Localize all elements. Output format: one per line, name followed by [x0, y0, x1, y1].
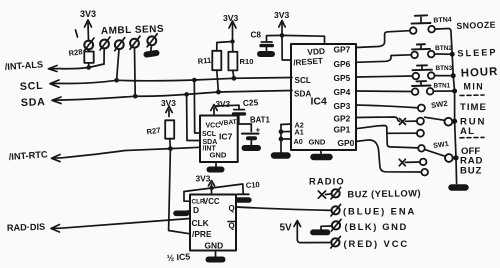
junction R11/SDA	[216, 90, 221, 95]
svg-text:AL: AL	[460, 126, 475, 137]
wire R11 to SDA	[217, 70, 219, 92]
connector pad GND (radio)	[331, 219, 341, 231]
svg-text:BTN3: BTN3	[436, 65, 453, 72]
wire IC7 GND	[215, 162, 217, 167]
svg-text:GND: GND	[210, 151, 227, 160]
power 5V	[280, 221, 301, 241]
svg-text:3V3: 3V3	[274, 10, 290, 20]
net /INT-ALS	[4, 59, 60, 72]
junction R10/SCL	[232, 76, 237, 81]
wire A2 stub	[281, 123, 291, 126]
wire Q to ENA pad	[236, 207, 332, 210]
svg-text:SCL: SCL	[20, 80, 44, 93]
wire GP2 to SW2 RUN	[356, 117, 400, 121]
svg-text:BAT1: BAT1	[250, 116, 270, 125]
wire /INT-ALS line	[60, 64, 104, 69]
junction SCL drop to IC7	[192, 78, 197, 83]
X mark (SW1 RAD)	[399, 159, 405, 166]
resistor R28	[68, 47, 94, 67]
junction 3V3 pullups	[230, 39, 234, 43]
svg-text:VCC: VCC	[206, 123, 221, 130]
svg-text:R10: R10	[240, 57, 254, 66]
X mark (GP2 wire)	[400, 119, 406, 125]
svg-text:3V3: 3V3	[196, 174, 211, 184]
svg-text:IC7: IC7	[219, 132, 233, 142]
wire pad3 to SCL line	[117, 49, 119, 80]
svg-text:(BLK) GND: (BLK) GND	[345, 221, 408, 232]
junction bus/SW2	[452, 119, 457, 124]
wire A1 stub	[281, 131, 291, 133]
svg-text:5V: 5V	[280, 223, 293, 234]
wire 3V3 to C8	[267, 35, 283, 41]
connector pad VCC (radio)	[331, 236, 341, 248]
wire A0 stub	[281, 138, 291, 140]
svg-text:RADIO: RADIO	[309, 176, 345, 187]
wire junction to /PRE	[169, 149, 190, 234]
svg-text:GND: GND	[309, 138, 326, 147]
pushbutton BTN4	[410, 15, 452, 34]
separator dashes	[460, 94, 484, 97]
wire BTN2 to bus	[435, 53, 453, 55]
resistor R27	[146, 120, 174, 148]
wire BTN4 to bus	[435, 28, 451, 31]
svg-text:RAD·DIS: RAD·DIS	[7, 222, 46, 233]
junction bus/BTN3	[451, 73, 456, 78]
wire X to BUZ pad	[326, 193, 332, 196]
wire BTN1 to bus	[433, 90, 454, 92]
IC IC4 (GPIO expander)	[291, 44, 356, 150]
wire 5V to VCC pad	[297, 240, 331, 243]
svg-text:GP4: GP4	[334, 87, 351, 97]
capacitor C8	[251, 31, 273, 52]
junction R27//INT-RTC	[168, 146, 173, 151]
wire R10 to SCL	[233, 70, 234, 78]
wire GP7 to BTN4	[356, 31, 410, 48]
wire RAD-DIS to CLK	[61, 219, 190, 229]
svg-text:BTN4: BTN4	[433, 17, 452, 25]
wire IC5 GND	[215, 251, 217, 257]
wire GP0 to SW1 BUZ	[356, 140, 421, 172]
ground (radio GND)	[313, 229, 328, 235]
svg-text:A1: A1	[295, 128, 304, 137]
svg-text:VDD: VDD	[307, 46, 325, 57]
svg-text:D: D	[193, 205, 199, 215]
connector pad BUZ (radio)	[331, 187, 341, 199]
wire 3V3 to R10	[232, 42, 234, 52]
svg-text:HOUR: HOUR	[461, 66, 499, 80]
svg-text:GP2: GP2	[334, 114, 351, 124]
svg-text:SCL: SCL	[295, 76, 311, 85]
svg-text:GP3: GP3	[334, 101, 351, 111]
pushbutton BTN3	[413, 65, 453, 79]
connector pad P4 AMBL	[130, 36, 140, 49]
svg-text:(RED) VCC: (RED) VCC	[344, 238, 410, 249]
svg-text:3V3: 3V3	[223, 13, 239, 23]
svg-text:3V3: 3V3	[80, 9, 96, 19]
wire GP6 to BTN2	[356, 55, 411, 63]
svg-text:3V3: 3V3	[216, 100, 231, 109]
ground (C10)	[238, 197, 249, 202]
connector pad P2 AMBL	[100, 37, 110, 50]
svg-text:GND: GND	[205, 241, 224, 251]
net RAD-DIS	[7, 222, 61, 233]
svg-text:BUZ: BUZ	[460, 166, 482, 177]
svg-text:GP1: GP1	[334, 125, 351, 135]
svg-text:SCL: SCL	[202, 131, 217, 138]
wire pad4 to SDA line	[134, 48, 137, 97]
wire IC4 GND	[320, 150, 322, 154]
svg-text:GP5: GP5	[334, 73, 351, 83]
wire 3V3 to C25	[216, 105, 239, 109]
IC IC7 (RTC)	[200, 116, 238, 163]
junction SCL/pad3	[114, 78, 119, 83]
wire SCL line	[60, 78, 292, 84]
svg-text:SLEEP: SLEEP	[457, 47, 497, 58]
svg-text:SDA: SDA	[294, 90, 311, 99]
wire 3V3 to /RESET	[282, 35, 291, 60]
power 3V3 (IC5)	[196, 174, 215, 189]
junction bus/BTN1	[452, 89, 457, 94]
connector pad P3 AMBL	[115, 38, 125, 51]
svg-text:Q: Q	[229, 204, 235, 213]
svg-text:GP7: GP7	[334, 45, 351, 55]
svg-text:/PRE: /PRE	[192, 229, 212, 239]
net /INT-RTC	[8, 149, 62, 162]
svg-text:GP0: GP0	[338, 138, 355, 148]
junction IC5 VCC	[209, 186, 213, 190]
power 3V3 (R27)	[161, 98, 176, 117]
svg-text:BUZ (YELLOW): BUZ (YELLOW)	[347, 188, 421, 199]
separator dashes	[460, 136, 484, 138]
svg-text:GP6: GP6	[334, 59, 351, 69]
ground (IC7)	[210, 167, 222, 173]
ground (bus)	[452, 184, 466, 191]
capacitor C10	[238, 180, 260, 194]
junction A1	[279, 129, 284, 134]
wire A-bus to ground	[280, 125, 282, 153]
svg-text:IC4: IC4	[311, 96, 328, 108]
wire SW2 common to bus	[452, 120, 454, 122]
svg-text:(BLUE) ENA: (BLUE) ENA	[343, 206, 416, 217]
ground (C8)	[260, 51, 272, 57]
svg-text:AMBL SENS: AMBL SENS	[101, 24, 165, 37]
svg-text:A0: A0	[294, 137, 303, 146]
wire 3V3 to C10	[212, 184, 244, 194]
switch SW2	[417, 99, 452, 137]
wire X to RAD contact	[405, 161, 420, 163]
wire SCL to IC7	[194, 80, 200, 133]
svg-text:½ IC5: ½ IC5	[166, 251, 190, 263]
power 3V3 (AMBL SENS)	[76, 9, 97, 41]
svg-text:TIME: TIME	[460, 102, 487, 113]
junction SDA drop to IC7	[184, 92, 189, 97]
pushbutton BTN2	[411, 44, 452, 58]
wire /INT-RTC line	[62, 147, 200, 158]
junction bus/SW1	[453, 155, 458, 160]
pushbutton BTN1	[412, 81, 451, 95]
ground (AMBL pad5)	[147, 45, 157, 54]
resistor R11	[197, 51, 221, 70]
power 3V3 (IC7)	[211, 100, 231, 116]
wire C25 to VBAT/BAT1	[239, 116, 252, 132]
wire SDA to IC7	[187, 94, 200, 140]
connector pad P5 AMBL	[147, 34, 157, 47]
battery BAT1	[242, 116, 270, 146]
IC IC5 (flip-flop)	[190, 195, 236, 251]
svg-text:BTN1: BTN1	[434, 83, 451, 90]
junction R28//INT-ALS	[86, 65, 91, 70]
svg-text:C25: C25	[243, 97, 259, 108]
connector pad P1 AMBL	[84, 38, 94, 51]
svg-text:C8: C8	[251, 31, 262, 40]
svg-text:BTN2: BTN2	[435, 45, 453, 52]
svg-text:R28: R28	[68, 47, 83, 58]
wire 3V3 to VCC pin	[211, 188, 213, 195]
junction SDA/pad4	[133, 94, 138, 99]
wire SDA line	[62, 91, 292, 101]
wire GP1 branch to SW2 AL	[387, 132, 417, 134]
power 3V3 (IC4)	[274, 10, 290, 34]
wire X to RUN contact	[406, 120, 417, 122]
power 3V3 (pull-ups R11 R10)	[223, 13, 239, 41]
net SCL	[20, 80, 60, 93]
svg-text:+: +	[256, 126, 261, 135]
wire D to ground	[184, 211, 191, 212]
wire 3V3 to CLR	[184, 188, 212, 201]
X mark (BUZ pad)	[318, 191, 325, 198]
ground (BAT1)	[245, 145, 259, 151]
wire GP5 to BTN3	[356, 76, 412, 77]
svg-text:R27: R27	[146, 126, 161, 137]
wire 3V3 to R11	[217, 42, 233, 51]
ground (A-bus)	[274, 152, 288, 159]
junction 3V3 IC4	[280, 33, 285, 38]
svg-text:C10: C10	[246, 180, 261, 190]
wire right bus	[451, 31, 457, 184]
switch SW1	[418, 139, 453, 176]
resistor R10	[228, 52, 253, 71]
junction A0	[279, 137, 284, 142]
svg-text:VCC: VCC	[203, 197, 220, 206]
wire pad2 to INT-ALS line	[103, 48, 105, 64]
wire BTN3 to bus	[435, 75, 454, 77]
ground (IC5)	[209, 257, 223, 263]
junction bus/BTN2	[450, 52, 455, 57]
wire GP4 to BTN1	[356, 90, 412, 93]
ground (D pin)	[176, 211, 187, 217]
capacitor C25	[234, 97, 259, 114]
svg-text:MIN: MIN	[464, 82, 485, 92]
wire GND pad to ground	[321, 226, 332, 230]
svg-text:Q: Q	[229, 222, 235, 231]
wire GP1 down	[356, 126, 418, 148]
svg-text:3V3: 3V3	[161, 98, 176, 108]
net SDA	[21, 96, 62, 109]
ground (IC4)	[314, 154, 330, 161]
connector pad ENA (radio)	[331, 204, 341, 216]
svg-text:SDA: SDA	[21, 96, 46, 109]
svg-text:CLK: CLK	[192, 218, 209, 228]
svg-text:SNOOZE: SNOOZE	[456, 20, 496, 31]
svg-text:R11: R11	[197, 56, 212, 66]
wire GP3 to SW2 TIME	[356, 105, 418, 108]
wire SW1 common to bus	[453, 157, 456, 159]
wire 3V3 to VDD	[282, 35, 325, 44]
